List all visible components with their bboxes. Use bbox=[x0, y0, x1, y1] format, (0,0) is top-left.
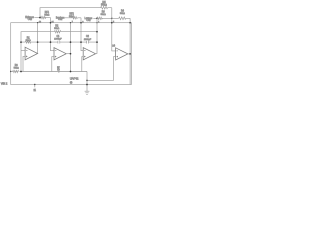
resistor R5 (top feedback) bbox=[101, 6, 108, 9]
svg-text:50kΩ: 50kΩ bbox=[101, 3, 107, 6]
pin dot on box top (A3 out riser) bbox=[96, 22, 97, 23]
resistor R6 (lowpass summing) bbox=[97, 17, 102, 19]
wire R4 feedback run bbox=[112, 17, 130, 19]
svg-text:13: 13 bbox=[39, 21, 41, 23]
capacitor C1 bbox=[58, 41, 60, 44]
op-amp A4 bbox=[116, 48, 128, 60]
svg-text:50kΩ: 50kΩ bbox=[26, 39, 31, 42]
junction dot rail left bbox=[20, 71, 22, 73]
wire A3 output riser bbox=[96, 18, 98, 53]
pin dot on box top (A1 out riser) bbox=[37, 22, 38, 23]
svg-text:14: 14 bbox=[51, 21, 53, 23]
wire A4 output bbox=[128, 53, 130, 55]
wire A1 output riser bbox=[37, 23, 39, 54]
junction dot LP node bbox=[96, 17, 98, 19]
wire RF1 drop to A2 input bbox=[51, 18, 55, 51]
op-amp A1 bbox=[25, 47, 37, 60]
svg-text:Out: Out bbox=[58, 18, 62, 21]
pin dot on box top (A2 out riser) bbox=[70, 22, 71, 23]
svg-text:Out: Out bbox=[86, 19, 90, 22]
capacitor C2 bbox=[87, 41, 89, 44]
pin dot input (left edge) bbox=[10, 71, 11, 72]
wire A2 +in to common bbox=[52, 57, 54, 72]
resistor RF1 bbox=[41, 16, 46, 18]
wire top feedback run bbox=[40, 8, 112, 18]
svg-text:50kΩ: 50kΩ bbox=[69, 15, 74, 18]
ground bbox=[85, 91, 90, 94]
wire bandpass stub bbox=[65, 17, 81, 19]
svg-text:50kΩ: 50kΩ bbox=[120, 12, 125, 15]
pin dot on box top (RF2) bbox=[80, 22, 82, 24]
svg-text:(4): (4) bbox=[70, 82, 73, 84]
svg-text:8: 8 bbox=[82, 21, 83, 23]
svg-text:1000pF: 1000pF bbox=[54, 39, 62, 41]
svg-text:7: 7 bbox=[72, 21, 73, 23]
wire A2 output riser bbox=[70, 23, 72, 72]
wire RF2 drop to A3 input bbox=[81, 18, 83, 51]
svg-text:50kΩ: 50kΩ bbox=[54, 27, 59, 30]
svg-text:5: 5 bbox=[113, 21, 114, 23]
svg-text:50kΩ: 50kΩ bbox=[44, 14, 49, 17]
wire A4 +in to common return bbox=[87, 57, 116, 81]
wire ground drop bbox=[86, 72, 88, 92]
resistor R3 (input) bbox=[13, 70, 19, 72]
op-amp A2 bbox=[54, 48, 66, 60]
junction dot A4 summing node bbox=[111, 17, 113, 19]
svg-text:50kΩ: 50kΩ bbox=[101, 13, 106, 16]
pin stub BP out bbox=[58, 71, 60, 73]
resistor RF2 bbox=[72, 17, 77, 19]
svg-text:A4: A4 bbox=[112, 44, 116, 47]
svg-text:UAF42: UAF42 bbox=[70, 77, 79, 81]
resistor R4 bbox=[119, 17, 126, 20]
wire common rail bbox=[11, 71, 87, 73]
junction dots on summing row bbox=[20, 41, 22, 43]
pin dot on box top (A4 in) bbox=[111, 22, 113, 24]
wire A3 output bbox=[96, 53, 98, 55]
junction dot outer feedback at A3 out bbox=[96, 31, 98, 33]
pin dot on box top (RF1) bbox=[50, 22, 52, 24]
wire A4 output right-side drop bbox=[129, 18, 131, 84]
wire A1 -in stub bbox=[21, 50, 25, 52]
svg-text:50kΩ: 50kΩ bbox=[14, 67, 19, 70]
wire lowpass stub bbox=[93, 17, 112, 19]
wire A2 output bbox=[66, 53, 70, 55]
wire main summing row bbox=[21, 41, 97, 43]
wire A3 +in to common bbox=[82, 57, 83, 72]
pin dot on box top (A4 out) bbox=[129, 22, 131, 24]
junction dot HP node bbox=[39, 17, 41, 19]
wire lowpass outer feedback (A3 out to A1 node) bbox=[21, 32, 97, 72]
junction dot rail A2 out bbox=[70, 71, 72, 73]
svg-text:1000pF: 1000pF bbox=[84, 39, 92, 41]
svg-text:VIN 2: VIN 2 bbox=[1, 82, 8, 85]
wire A1 +in to common bbox=[23, 56, 25, 71]
resistor R2 (outer feedback) bbox=[54, 31, 61, 33]
wire highpass stub bbox=[34, 17, 50, 19]
wire A4 inverting input drop bbox=[112, 8, 116, 51]
svg-text:11: 11 bbox=[34, 90, 37, 92]
pin stub V+ bbox=[34, 85, 36, 88]
resistor R1 (A1 feedback) bbox=[25, 41, 30, 43]
IC box outline bbox=[11, 23, 132, 85]
op-amp A3 bbox=[83, 48, 95, 60]
svg-text:Out: Out bbox=[28, 18, 32, 21]
svg-text:1: 1 bbox=[98, 21, 99, 23]
